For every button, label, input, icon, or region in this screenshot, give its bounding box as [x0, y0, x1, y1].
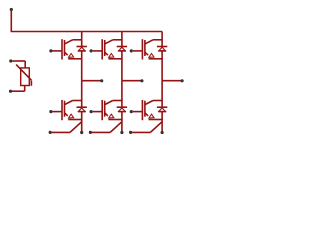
node phase C output dot [181, 79, 184, 82]
wire emitter bend Q4 [92, 122, 122, 133]
wire collector drop column A [81, 32, 83, 47]
wire top rail [11, 31, 163, 33]
node emitter wire port dot Q2 [49, 131, 52, 134]
wire lower diode to port column A [81, 112, 83, 133]
transistor Q5 [133, 39, 163, 59]
varistor RV1 [16, 65, 31, 86]
wire midpoint to lower cell column C [161, 81, 163, 108]
diode D5 [157, 47, 167, 51]
gate port dot Q6 [130, 110, 133, 113]
transistor Q2 [53, 100, 83, 120]
wire midpoint column C [161, 51, 163, 81]
gate port dot Q2 [49, 110, 52, 113]
wire midpoint to lower cell column A [81, 81, 83, 108]
varistor terminal dot bottom [9, 90, 12, 93]
gate port dot Q4 [90, 110, 93, 113]
gate port dot Q3 [90, 49, 93, 52]
node emitter wire port dot Q6 [129, 131, 132, 134]
wire emitter bend Q6 [132, 122, 162, 133]
wire emitter bend Q2 [52, 122, 82, 133]
wire varistor bottom lead [12, 86, 25, 92]
wire midpoint column A [81, 51, 83, 81]
node emitter port dot Q4 [120, 131, 123, 134]
diode D3 [117, 47, 127, 51]
wire varistor top lead [12, 61, 25, 68]
transistor Q6 [133, 100, 163, 120]
node emitter port dot Q2 [80, 131, 83, 134]
node emitter port dot Q6 [161, 131, 164, 134]
wire midpoint column B [121, 51, 123, 81]
wire midpoint to lower cell column B [121, 81, 123, 108]
wire collector drop column B [121, 32, 123, 47]
varistor terminal dot top [9, 59, 12, 62]
wire phase B output stub [122, 80, 141, 82]
transistor Q1 [53, 39, 83, 59]
transistor Q4 [93, 100, 123, 120]
wire lower diode to port column B [121, 112, 123, 133]
diode D1 [77, 47, 87, 51]
node DC+ terminal dot [10, 8, 13, 11]
gate port dot Q5 [130, 49, 133, 52]
wire phase C output stub [162, 80, 181, 82]
wire lower diode to port column C [161, 112, 163, 133]
node phase B output dot [140, 79, 143, 82]
wire phase A output stub [82, 80, 101, 82]
node phase A output dot [100, 79, 103, 82]
gate port dot Q1 [49, 49, 52, 52]
node emitter wire port dot Q4 [89, 131, 92, 134]
diode D6 [157, 107, 167, 111]
wire DC+ vertical [10, 10, 12, 31]
transistor Q3 [93, 39, 123, 59]
diode D4 [117, 107, 127, 111]
diode D2 [77, 107, 87, 111]
wire collector drop column C [161, 32, 163, 47]
